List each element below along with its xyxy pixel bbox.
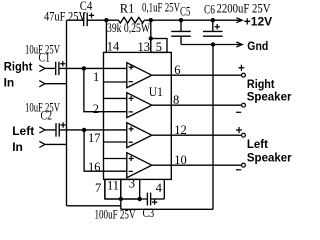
wire pin 10 output: [152, 164, 242, 166]
svg-text:+12V: +12V: [244, 14, 272, 28]
amp 4 polarity marks: [129, 156, 134, 171]
amp 4 input stubs: [104, 159, 127, 172]
port Right In signal: [39, 65, 45, 71]
wire pin 12 output: [152, 134, 242, 136]
svg-text:U1: U1: [149, 85, 163, 99]
svg-text:Gnd: Gnd: [247, 39, 268, 53]
svg-text:7: 7: [95, 181, 101, 195]
amp 4 triangle: [127, 153, 152, 178]
svg-text:0,1uF 25V: 0,1uF 25V: [142, 1, 180, 15]
node C5 top: [179, 18, 183, 22]
node pin5 box junction: [149, 36, 153, 40]
node C6 top: [211, 18, 215, 22]
terminal Right Speaker minus: [242, 103, 246, 107]
svg-text:16: 16: [88, 160, 101, 174]
wire C3 to pin 4: [151, 198, 165, 200]
mark plus (left speaker): [236, 127, 242, 133]
capacitor C3: [147, 193, 157, 206]
port Right In ground: [39, 81, 45, 87]
svg-text:1: 1: [93, 70, 99, 84]
wire to pin 2: [84, 68, 104, 111]
amp 1 polarity marks: [129, 65, 134, 82]
wire pin 8 output: [152, 104, 242, 106]
svg-text:100uF 25V: 100uF 25V: [95, 208, 136, 222]
svg-text:Right: Right: [4, 60, 33, 74]
node pin1/pin2 split: [82, 66, 86, 70]
wire right ground rail vertical: [212, 45, 214, 210]
wire ground rail horizontal to Gnd arrow: [181, 44, 241, 46]
wire pin 7 / box 11 left edge: [104, 179, 106, 199]
terminal Right Speaker plus: [242, 73, 246, 77]
svg-text:2: 2: [93, 102, 99, 116]
node junction C4/R1/pin14: [104, 18, 108, 22]
svg-text:10: 10: [174, 153, 187, 167]
svg-text:Left: Left: [12, 124, 34, 138]
svg-text:Speaker: Speaker: [247, 153, 292, 165]
Gnd arrowhead: [236, 42, 242, 47]
port Left In signal: [39, 127, 45, 133]
wire Right In to C1: [45, 67, 56, 69]
capacitor C1: [56, 61, 66, 75]
mark minus (right speaker): [236, 111, 241, 113]
pin 3 box: [121, 179, 140, 199]
node pin 3 junction: [138, 197, 142, 201]
wire Right In ground stub: [45, 83, 67, 85]
svg-text:R1: R1: [120, 1, 135, 15]
svg-text:6: 6: [174, 63, 180, 77]
terminal Left Speaker minus: [242, 163, 246, 167]
amp 2 triangle: [127, 93, 152, 118]
capacitor C6: [203, 20, 223, 36]
svg-text:Speaker: Speaker: [247, 92, 292, 104]
pin 4 box right edge: [163, 179, 165, 199]
port Left In ground: [39, 141, 45, 147]
node pin 11 junction: [119, 197, 123, 201]
svg-text:Left: Left: [247, 139, 268, 151]
terminal Left Speaker plus: [242, 133, 246, 137]
wire Left In to C2: [45, 129, 56, 131]
svg-text:47uF 25V: 47uF 25V: [44, 9, 86, 23]
wire bottom ground horizontal: [121, 208, 213, 210]
amp 1 input stubs: [104, 68, 127, 82]
wire bottom jog vertical: [120, 199, 122, 209]
amp 3 triangle: [127, 123, 152, 148]
amp 3 polarity marks: [129, 126, 134, 142]
svg-text:2200uF 25V: 2200uF 25V: [217, 2, 271, 16]
wire top rail from C4 to +12V arrow: [87, 19, 241, 21]
wire pin 13 to rail: [150, 20, 152, 52]
svg-text:C2: C2: [41, 108, 53, 122]
op-amp U1 IC body: [104, 52, 172, 179]
node C6 bottom / ground rail: [211, 42, 215, 46]
svg-text:C1: C1: [39, 51, 51, 65]
capacitor C2: [56, 122, 66, 136]
svg-text:C5: C5: [180, 5, 191, 19]
capacitor C4: [84, 13, 95, 27]
wire C2 to pin 17: [59, 129, 103, 131]
svg-text:In: In: [12, 140, 23, 154]
wire input ground bus vertical: [66, 20, 68, 206]
svg-text:13: 13: [138, 40, 151, 54]
wire pin 6 output: [152, 74, 242, 76]
amp 3 input stubs: [104, 130, 127, 142]
svg-text:Right: Right: [247, 79, 275, 91]
resistor R1: [118, 17, 144, 23]
capacitor C5: [171, 20, 191, 44]
svg-text:17: 17: [88, 131, 101, 145]
wire C1 to pin 1: [59, 67, 104, 69]
svg-text:39k 0,25W: 39k 0,25W: [107, 21, 150, 35]
svg-text:14: 14: [107, 39, 120, 53]
wire box bottoms to C3: [105, 198, 147, 200]
amp 1 triangle: [127, 63, 152, 88]
pin 11 box: [105, 179, 121, 199]
pin 5 box: [151, 39, 167, 53]
svg-text:In: In: [4, 75, 15, 89]
wire C4 left to ground bus: [67, 19, 84, 21]
amp 2 polarity marks: [129, 96, 134, 112]
svg-text:C3: C3: [143, 206, 155, 220]
svg-text:12: 12: [174, 123, 187, 137]
mark minus (left speaker): [236, 169, 241, 171]
wire ground bus bottom horizontal: [67, 205, 121, 207]
svg-text:3: 3: [129, 176, 135, 190]
node junction R1/pin13: [149, 18, 153, 22]
wire Left In ground stub: [45, 143, 67, 145]
svg-text:11: 11: [107, 179, 119, 193]
svg-text:C6: C6: [204, 2, 215, 16]
svg-text:8: 8: [173, 93, 179, 107]
wire pin 14 to rail: [105, 20, 107, 52]
wire to pin 16: [84, 130, 103, 171]
node pin17/pin16 split: [82, 128, 86, 132]
svg-text:4: 4: [156, 181, 163, 195]
amp 2 input stubs: [104, 98, 127, 111]
+12V arrowhead: [236, 18, 242, 23]
mark plus (right speaker): [238, 65, 244, 71]
svg-text:5: 5: [156, 40, 162, 54]
